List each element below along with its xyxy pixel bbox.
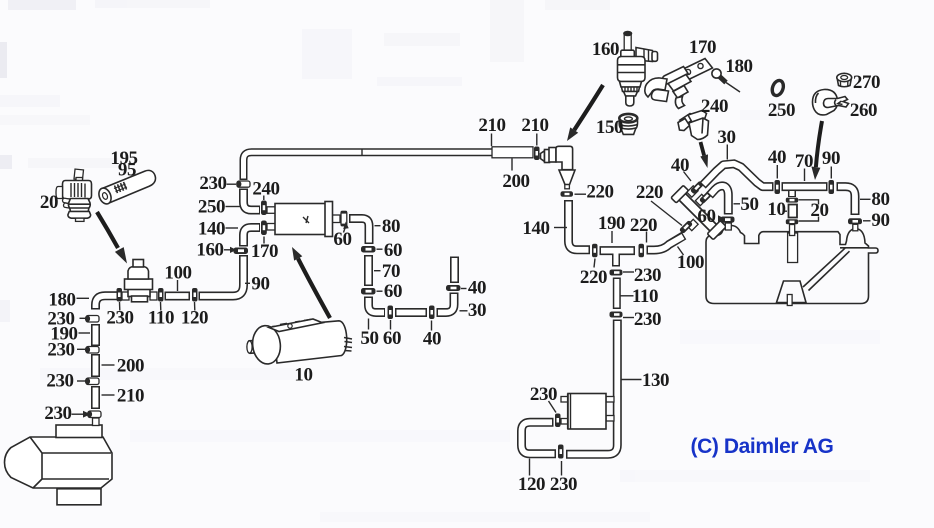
connector 60 (vertical, bottom run) [388, 306, 394, 320]
svg-text:60: 60 [384, 240, 402, 261]
hose 90 (horizontal then up) [199, 255, 244, 296]
arrow from pump 260 down to hose 70R [811, 121, 822, 180]
connector 230 (on vertical under top pipe) [236, 181, 250, 187]
connector 210 (right end of main pipe) [534, 147, 540, 161]
Y distributor pipe (45 deg) [671, 180, 726, 239]
main vacuum pipe 210/200 (top long run) [244, 147, 534, 180]
connector 230 (below T) [610, 270, 623, 276]
connector 230 (at solenoid lower left port) [555, 414, 561, 428]
svg-text:200: 200 [117, 356, 144, 377]
stub into left hump [725, 223, 731, 230]
hose segment 60-40 (horizontal) [395, 308, 427, 317]
svg-text:160: 160 [592, 39, 619, 60]
connector 230 (below hose 110) [610, 312, 623, 318]
svg-text:250: 250 [198, 197, 225, 218]
connector 160 [234, 248, 249, 255]
hose 210 (left column bottom) [91, 386, 100, 409]
svg-text:210: 210 [117, 386, 144, 407]
svg-text:20: 20 [810, 200, 828, 221]
svg-text:50: 50 [740, 194, 758, 215]
canister C (vacuum element) [267, 202, 340, 237]
svg-text:250: 250 [768, 100, 795, 121]
svg-text:220: 220 [636, 182, 663, 203]
hose 50 (elbow down then right) [369, 297, 386, 313]
connector 40R (vertical, right of hose 30) [775, 180, 781, 194]
svg-text:220: 220 [580, 267, 607, 288]
svg-text:30: 30 [468, 300, 486, 321]
arrow from valve 160 to elbow fitting [567, 85, 603, 141]
svg-text:100: 100 [677, 252, 704, 273]
connector (left of hose 90 run) [192, 288, 198, 302]
hose 180 (elbow to horizontal line) [96, 296, 119, 310]
hose 30L (elbow right then up) [437, 293, 455, 313]
valve 160 (top middle) [618, 31, 658, 106]
svg-text:140: 140 [522, 218, 549, 239]
hose 80R (elbow right then down) [837, 187, 856, 215]
svg-text:60: 60 [333, 229, 351, 250]
hose 140 (vertical then elbow right) [569, 200, 591, 250]
hose segment 110 (horizontal) [165, 292, 191, 301]
svg-text:230: 230 [550, 474, 577, 495]
connector 220 (right of T, start of 100) [639, 244, 645, 257]
grommet 250 (ellipse ring) [770, 79, 785, 97]
svg-text:220: 220 [586, 182, 613, 203]
hose 80 chain: connector 60 (right of canister) [341, 211, 348, 227]
pump P1 (vacuum pump bottom left) [5, 418, 113, 505]
hose 70R (horizontal top right) [782, 182, 828, 191]
svg-text:120: 120 [518, 474, 545, 495]
nut 270 [837, 73, 852, 87]
svg-text:90: 90 [871, 210, 889, 231]
svg-text:110: 110 [148, 308, 174, 329]
connector 10 top (dark bar) [786, 198, 798, 203]
svg-text:30: 30 [717, 127, 735, 148]
svg-text:170: 170 [251, 241, 278, 262]
svg-text:80: 80 [871, 189, 889, 210]
hose 200 (left column) [91, 354, 100, 377]
svg-text:110: 110 [632, 286, 658, 307]
arrow from reservoir 10 to canister [292, 247, 330, 318]
leader lines [72, 134, 871, 476]
connector 220 (below elbow fitting) [561, 191, 574, 197]
connector 60 (below hose 50R) [721, 217, 735, 223]
hose 30 (hump over top) [703, 164, 774, 187]
stub down from hose 70R [788, 191, 796, 197]
arrow from clip 240 to hose 30 [700, 142, 708, 168]
hose 130 (long vertical, elbow left at bottom) [566, 320, 617, 455]
connector 60 (below hose 80) [361, 246, 376, 253]
reservoir cylinder 10 [247, 319, 352, 365]
connector 230 (above pump) [87, 411, 101, 418]
filter 95/195 (cylinder top left) [97, 170, 156, 205]
connector 90b (below hose 80R) [848, 218, 862, 224]
connector 230 (on line left of check valve) [117, 288, 123, 302]
screw 180 [712, 69, 740, 92]
svg-text:(C) Daimler AG: (C) Daimler AG [691, 435, 834, 458]
connector 170 [261, 221, 267, 236]
svg-text:130: 130 [642, 370, 669, 391]
svg-text:270: 270 [853, 72, 880, 93]
hose 70 (vertical) [364, 255, 373, 286]
svg-text:20: 20 [40, 192, 58, 213]
check valve V (on horizontal line) [122, 260, 157, 302]
svg-text:230: 230 [634, 265, 661, 286]
solenoid valve (bottom middle) [561, 394, 614, 430]
hose 50R (upside down U at Y pipe) [710, 186, 729, 215]
grommet 150 [619, 114, 637, 135]
elbow fitting (below valve 160) [541, 146, 576, 189]
hose 250 (elbow from vertical into canister top port) [244, 189, 261, 211]
svg-text:100: 100 [164, 263, 191, 284]
svg-text:210: 210 [521, 115, 548, 136]
svg-text:60: 60 [697, 206, 715, 227]
hose 190 (left column) [91, 324, 100, 346]
connector 40 (vertical, bottom run) [429, 306, 435, 320]
svg-text:230: 230 [46, 371, 73, 392]
svg-text:170: 170 [689, 37, 716, 58]
svg-text:10: 10 [767, 199, 785, 220]
svg-text:190: 190 [598, 213, 625, 234]
connector 230 (bottom, between 120 and 130) [558, 445, 564, 459]
svg-text:95: 95 [118, 160, 136, 181]
svg-text:150: 150 [596, 117, 623, 138]
svg-text:60: 60 [383, 328, 401, 349]
connector (on line right of check valve) [158, 288, 164, 302]
connector 240 [261, 201, 267, 216]
svg-text:60: 60 [384, 281, 402, 302]
svg-text:260: 260 [850, 100, 877, 121]
svg-text:10: 10 [294, 365, 312, 386]
svg-text:230: 230 [47, 340, 74, 361]
connector 90a (on hose 70R) [829, 180, 835, 194]
svg-text:230: 230 [199, 173, 226, 194]
svg-text:90: 90 [251, 274, 269, 295]
hose 80 (elbow right then down) [349, 219, 369, 245]
clip 240 (top right) [678, 111, 709, 140]
stub into outline (center) [790, 225, 795, 236]
svg-text:70: 70 [795, 151, 813, 172]
bracket 20 lines [799, 200, 819, 221]
svg-text:180: 180 [48, 290, 75, 311]
svg-text:240: 240 [701, 96, 728, 117]
svg-text:40: 40 [768, 147, 786, 168]
hose 120 (U shape) [522, 422, 557, 454]
svg-text:140: 140 [198, 219, 225, 240]
hose 110 (vertical) [613, 278, 621, 310]
svg-text:40: 40 [468, 278, 486, 299]
svg-text:230: 230 [634, 309, 661, 330]
T-piece 190 [600, 250, 636, 267]
svg-text:40: 40 [423, 329, 441, 350]
hose 100 (from T connector up to Y pipe) [647, 236, 685, 251]
svg-text:230: 230 [106, 308, 133, 329]
connector 10 bottom (dark bar) [786, 219, 798, 224]
pipe stub above connector 40 [450, 257, 459, 284]
connector 230 (below 190) [85, 347, 99, 354]
svg-text:50: 50 [360, 328, 378, 349]
svg-text:210: 210 [478, 115, 505, 136]
engine intake outline [706, 226, 878, 306]
connector 230 (top of left column) [85, 316, 99, 323]
bracket 170 (top right metal straps) [645, 59, 713, 109]
svg-text:230: 230 [530, 384, 557, 405]
hose 140a (elbow from canister lower port down to connector 160) [244, 228, 261, 247]
svg-text:220: 220 [630, 215, 657, 236]
pump 260 [813, 89, 849, 114]
svg-text:200: 200 [502, 171, 529, 192]
svg-text:120: 120 [181, 308, 208, 329]
svg-text:90: 90 [822, 148, 840, 169]
arrow from valve 20 to check valve [97, 212, 127, 264]
svg-text:240: 240 [252, 179, 279, 200]
connector 230 (below 200) [85, 378, 99, 385]
clamp 10 (small rect) [789, 205, 798, 218]
valve 20 (thermo valve top left) [56, 169, 92, 221]
connector 40 (on vertical) [446, 285, 461, 291]
svg-text:70: 70 [382, 261, 400, 282]
svg-text:40: 40 [671, 155, 689, 176]
svg-text:230: 230 [44, 403, 71, 424]
svg-text:80: 80 [382, 216, 400, 237]
connector 60 (below hose 70) [361, 288, 376, 295]
stub into dome [853, 224, 858, 231]
svg-text:180: 180 [725, 56, 752, 77]
svg-text:160: 160 [196, 240, 223, 261]
connector 220 (left of T) [592, 244, 598, 257]
